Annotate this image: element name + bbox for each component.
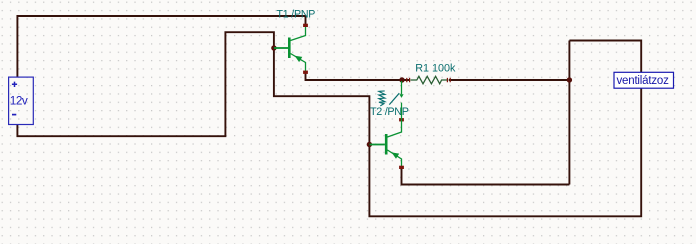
- svg-text:R1 100k: R1 100k: [415, 62, 456, 74]
- node R1 right: [567, 77, 572, 82]
- node T2 base: [367, 142, 372, 147]
- wire R1 right to node ventilator: [449, 79, 569, 81]
- label ventilatzoz box: [614, 72, 674, 88]
- R1 right pin end: [447, 78, 450, 82]
- wire T2 emitter to loop: [402, 168, 570, 185]
- T1 collector pin end: [303, 24, 308, 27]
- green arrow above T2 collector: [401, 81, 403, 94]
- wire battery plus to T1 collector: [17, 16, 305, 77]
- svg-text:T2 /PNP: T2 /PNP: [370, 106, 409, 118]
- node R1 left: [399, 77, 404, 82]
- transistor T2: [370, 122, 402, 169]
- svg-text:ventilátzoz: ventilátzoz: [617, 75, 670, 87]
- transistor T1: [274, 26, 306, 73]
- svg-text:T1 /PNP: T1 /PNP: [277, 9, 316, 21]
- resistor R1: [411, 76, 449, 84]
- rotated label squiggle: [379, 91, 385, 106]
- wire T1 emitter to node R1 left: [306, 72, 411, 80]
- rotated label slash: [389, 93, 399, 104]
- wire battery minus loop to T1 base: [17, 32, 274, 136]
- node T1 base: [271, 45, 276, 50]
- wire ventilator loop top and right to T2 base: [369, 41, 641, 217]
- wire T1 base to T2 base: [274, 48, 370, 145]
- T1 emitter pin end: [303, 71, 308, 74]
- R1 left pin end: [407, 78, 410, 82]
- T2 collector pin end: [399, 118, 404, 121]
- wire ventilator loop vertical: [568, 41, 570, 185]
- svg-text:12v: 12v: [10, 94, 28, 108]
- T2 emitter pin end: [399, 166, 404, 169]
- green segment T2 collector extension: [401, 103, 403, 122]
- battery B1 12v: [9, 77, 34, 124]
